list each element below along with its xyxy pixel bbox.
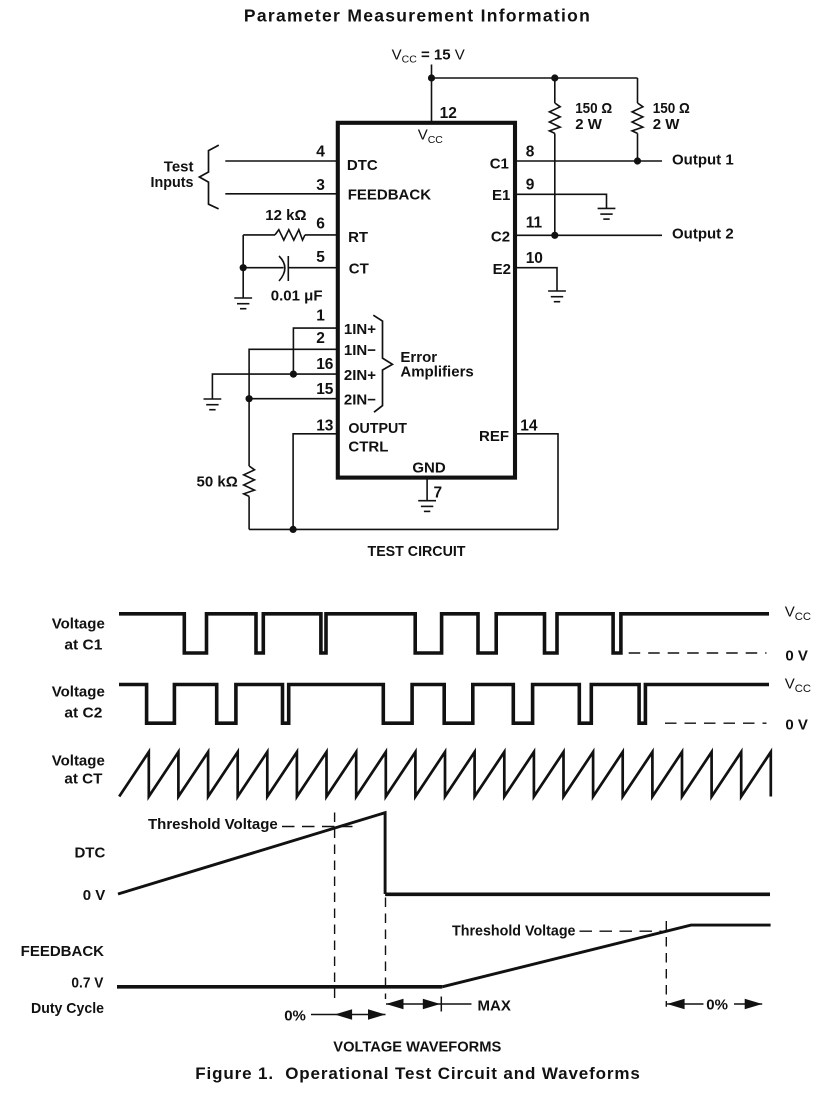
svg-text:Voltage: Voltage — [52, 683, 105, 700]
wire 0% left arrow line — [311, 1014, 386, 1016]
svg-text:6: 6 — [316, 215, 325, 232]
svg-text:2IN−: 2IN− — [344, 392, 376, 409]
wire R4 bottom to bottom rail — [248, 496, 250, 529]
wire bottom rail — [249, 528, 558, 530]
wire RT left lead — [243, 234, 275, 236]
brace error amplifiers — [373, 315, 392, 412]
svg-text:RT: RT — [348, 229, 368, 246]
waveform voltage at C1 — [119, 614, 769, 653]
svg-text:GND: GND — [412, 460, 446, 477]
wire dashed 0V level C2 — [665, 722, 767, 724]
svg-text:Figure 1. Operational Test Ci: Figure 1. Operational Test Circuit and W… — [195, 1064, 641, 1083]
wire VCC vertical into pin 12 — [431, 65, 433, 123]
junction bottom rail / pin 13 — [290, 526, 297, 533]
arrowhead right of 0% right — [745, 999, 763, 1009]
svg-text:1IN+: 1IN+ — [344, 321, 376, 338]
svg-text:8: 8 — [526, 144, 535, 161]
junction VCC node — [428, 74, 435, 81]
wire pin 15 2IN- — [249, 398, 338, 400]
wire right 0% arrow left segment — [667, 1003, 703, 1005]
wire CT left lead — [243, 267, 283, 269]
capacitor C3 0.01 uF curved plate — [279, 256, 285, 281]
svg-text:E2: E2 — [493, 261, 511, 278]
waveform sawtooth at CT — [119, 752, 771, 797]
svg-text:9: 9 — [526, 177, 535, 194]
svg-text:0%: 0% — [706, 997, 728, 1014]
svg-text:DTC: DTC — [347, 157, 378, 174]
svg-text:at C2: at C2 — [64, 704, 102, 721]
svg-text:TEST CIRCUIT: TEST CIRCUIT — [368, 543, 466, 560]
wire right 0% arrow right segment — [734, 1003, 762, 1005]
svg-text:OUTPUT: OUTPUT — [348, 420, 407, 437]
svg-text:0 V: 0 V — [785, 647, 808, 664]
svg-text:1: 1 — [316, 308, 325, 325]
svg-text:Threshold Voltage: Threshold Voltage — [148, 816, 278, 833]
svg-text:Parameter Measurement Informat: Parameter Measurement Information — [244, 5, 591, 25]
wire VCC rail corner down to R2 — [637, 78, 639, 103]
wire pin 2 1IN- — [249, 349, 338, 398]
junction R1/C2 — [551, 232, 558, 239]
svg-text:2 W: 2 W — [653, 116, 681, 133]
waveform voltage at C2 — [119, 685, 769, 724]
wire R1 bottom to C2 line — [554, 133, 556, 235]
arrowhead left of 0% right — [667, 999, 685, 1009]
svg-text:0%: 0% — [284, 1007, 306, 1024]
svg-text:12 kΩ: 12 kΩ — [265, 207, 306, 224]
svg-text:Threshold Voltage: Threshold Voltage — [452, 922, 576, 939]
svg-text:50 kΩ: 50 kΩ — [197, 474, 238, 491]
svg-text:5: 5 — [316, 249, 325, 266]
svg-text:Amplifiers: Amplifiers — [400, 364, 473, 381]
svg-text:0 V: 0 V — [785, 717, 808, 734]
svg-text:Output 1: Output 1 — [672, 151, 734, 168]
svg-text:3: 3 — [316, 177, 325, 194]
svg-text:0.01 μF: 0.01 μF — [271, 288, 323, 305]
svg-text:Output 2: Output 2 — [672, 226, 734, 243]
wire pin 7 GND — [426, 478, 428, 501]
svg-text:MAX: MAX — [478, 997, 511, 1014]
svg-text:CTRL: CTRL — [348, 439, 388, 456]
wire dashed vertical right 0% — [665, 921, 667, 1007]
wire pin 16 2IN+ to ground — [212, 374, 337, 399]
svg-text:15: 15 — [316, 381, 334, 398]
wire pin 3 FEEDBACK test input — [225, 193, 337, 195]
wire pin 9 E1 to ground — [515, 194, 607, 208]
svg-text:2 W: 2 W — [575, 116, 603, 133]
svg-text:Voltage: Voltage — [52, 752, 105, 769]
ground pin 7 — [418, 501, 436, 512]
junction 1IN+/2IN+ — [290, 371, 297, 378]
ground E1 — [598, 208, 616, 219]
svg-text:Duty Cycle: Duty Cycle — [31, 1000, 104, 1017]
wire pin 11 C2 to Output 2 — [515, 234, 662, 236]
svg-text:12: 12 — [440, 105, 457, 122]
wire dashed 0V level C1 — [629, 652, 767, 654]
svg-text:0.7 V: 0.7 V — [71, 974, 103, 991]
wire pin 13 OUTPUT CTRL — [293, 434, 338, 530]
waveform FEEDBACK ramp — [442, 925, 770, 987]
svg-text:REF: REF — [479, 428, 509, 445]
op-amp U1 TL494 IC body — [338, 123, 515, 478]
svg-text:150 Ω: 150 Ω — [575, 100, 612, 117]
arrowhead left of MAX — [386, 999, 404, 1009]
svg-text:FEEDBACK: FEEDBACK — [21, 943, 105, 960]
wire R1 top lead — [554, 78, 556, 103]
wire pin 10 E2 to ground — [515, 268, 557, 291]
wire CT right lead to pin 5 — [288, 267, 338, 269]
wire dashed leader threshold FEEDBACK — [580, 930, 662, 932]
waveform FEEDBACK flat 0.7V — [117, 985, 442, 989]
svg-text:FEEDBACK: FEEDBACK — [348, 187, 432, 204]
wire dashed leader threshold DTC — [282, 826, 353, 828]
svg-text:at C1: at C1 — [64, 637, 102, 654]
svg-text:2IN+: 2IN+ — [344, 367, 376, 384]
svg-text:13: 13 — [316, 417, 334, 434]
ground CT — [234, 298, 252, 309]
wire RT down to CT node — [242, 235, 244, 298]
resistor R4 50 kohm — [244, 466, 255, 496]
svg-text:11: 11 — [526, 215, 543, 232]
wire R2 bottom to C1 line — [637, 133, 639, 161]
wire pin 4 DTC test input — [225, 160, 337, 162]
svg-text:C2: C2 — [491, 229, 510, 246]
svg-text:14: 14 — [520, 417, 538, 434]
wire pin 14 REF down to bottom rail — [515, 434, 558, 530]
svg-text:DTC: DTC — [74, 845, 105, 862]
arrowhead right of 0% left — [368, 1009, 386, 1019]
svg-text:1IN−: 1IN− — [344, 342, 376, 359]
wire RT right lead to pin 6 — [305, 234, 338, 236]
resistor R1 150 ohm — [549, 103, 560, 133]
svg-text:150 Ω: 150 Ω — [653, 100, 690, 117]
svg-text:Voltage: Voltage — [52, 615, 105, 632]
ground 2IN+ — [204, 399, 222, 410]
svg-text:CT: CT — [349, 261, 369, 278]
svg-text:VOLTAGE WAVEFORMS: VOLTAGE WAVEFORMS — [333, 1039, 501, 1056]
svg-text:2: 2 — [316, 330, 325, 347]
svg-text:16: 16 — [316, 356, 334, 373]
svg-text:0 V: 0 V — [83, 887, 106, 904]
svg-text:C1: C1 — [490, 156, 509, 173]
svg-text:E1: E1 — [492, 187, 510, 204]
wire 2IN- node down to R4 — [248, 399, 250, 466]
wire dashed vertical at threshold crossing — [334, 813, 336, 1000]
resistor R2 150 ohm — [632, 103, 643, 133]
svg-text:Inputs: Inputs — [151, 174, 194, 191]
junction VCC rail to R1 — [551, 74, 558, 81]
svg-text:at CT: at CT — [64, 770, 102, 787]
ground E2 — [548, 291, 566, 302]
svg-text:10: 10 — [526, 250, 543, 267]
resistor R3 12 kohm — [275, 230, 305, 240]
waveform DTC 0V flat — [385, 892, 770, 896]
wire pin 8 C1 to Output 1 — [515, 160, 662, 162]
capacitor C3 straight plate — [287, 256, 289, 281]
junction 1IN-/2IN- — [246, 395, 253, 402]
wire dashed vertical at DTC drop — [385, 898, 387, 1000]
wire MAX arrow line — [386, 1003, 472, 1005]
arrowhead right of MAX — [423, 999, 441, 1009]
tick MAX end — [440, 997, 442, 1012]
brace test inputs — [199, 145, 218, 209]
junction R2/C1 — [634, 157, 641, 164]
wire pin 1 1IN+ — [293, 328, 337, 374]
arrowhead left of 0% left — [335, 1009, 353, 1019]
svg-text:7: 7 — [434, 485, 443, 502]
junction CT node — [240, 264, 247, 271]
wire VCC rail horizontal — [432, 77, 638, 79]
svg-text:4: 4 — [316, 144, 325, 161]
waveform DTC ramp — [118, 813, 385, 894]
